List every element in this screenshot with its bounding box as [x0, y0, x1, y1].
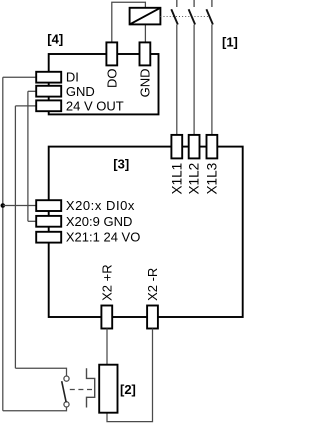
wire: DI terminal to left bus A — [3, 76, 36, 78]
svg-text:X2 -R: X2 -R — [145, 268, 160, 301]
wire: bus B to X20:9 terminal — [28, 220, 36, 222]
terminal GND (box 4 left) — [36, 86, 61, 97]
mains stub L2 — [193, 0, 195, 7]
svg-text:X20:x DI0x: X20:x DI0x — [66, 198, 135, 213]
wire: bus A vertical (DI to thermal contact) — [2, 77, 4, 411]
thermal contact lower terminal circle — [64, 402, 69, 407]
terminal DI (box 4 left) — [36, 72, 61, 83]
wire: bus C vertical (24V to thermal contact) — [14, 106, 16, 368]
box [3] servo drive — [49, 147, 243, 317]
svg-text:DI: DI — [66, 70, 79, 85]
wire: bus B vertical (GND to X20:9) — [27, 91, 29, 221]
terminal X21:1 (box 3 left) — [36, 232, 61, 243]
terminal GND (box 4 top) — [140, 42, 151, 65]
wire: bus C over to thermal contact top — [15, 368, 66, 376]
terminal X1L1 — [171, 135, 182, 159]
thermal contact upper terminal circle — [64, 376, 69, 381]
junction dot (DI bus to X20:x) — [1, 203, 6, 208]
terminal X1L3 — [207, 135, 218, 159]
wire: contact 3 to X1L3 — [211, 25, 213, 135]
svg-text:X1L2: X1L2 — [187, 163, 202, 195]
svg-text:X21:1 24 VO: X21:1 24 VO — [66, 230, 140, 245]
svg-text:24 V OUT: 24 V OUT — [66, 98, 124, 113]
svg-text:DO: DO — [105, 69, 120, 89]
wire: resistor bottom loop to X2-R — [107, 329, 153, 422]
svg-text:[4]: [4] — [47, 32, 63, 47]
wire: bus A bottom over to thermal contact bottom — [3, 407, 67, 411]
svg-text:[3]: [3] — [113, 157, 129, 172]
terminal X20:x (box 3 left) — [36, 200, 61, 211]
svg-text:X20:9 GND: X20:9 GND — [66, 214, 132, 229]
svg-text:[1]: [1] — [222, 35, 238, 50]
svg-text:X2 +R: X2 +R — [100, 264, 115, 301]
svg-text:X1L3: X1L3 — [204, 163, 219, 195]
svg-text:GND: GND — [138, 69, 153, 98]
mains stub L1 — [176, 0, 178, 7]
thermal contact blade — [62, 381, 66, 402]
wire: GND terminal to bus B — [28, 90, 36, 92]
svg-text:[2]: [2] — [120, 382, 136, 397]
contact blade 1 — [171, 9, 178, 24]
mechanical link (dotted) from coil to contacts — [160, 16, 208, 18]
wire: X2+R down to brake resistor — [106, 329, 108, 365]
wire: contact 1 to X1L1 — [176, 25, 178, 135]
terminal 24 V OUT (box 4 left) — [36, 100, 61, 111]
terminal DO (box 4 top) — [106, 42, 117, 65]
svg-text:X1L1: X1L1 — [169, 163, 184, 195]
terminal X1L2 — [189, 135, 200, 159]
contact blade 3 — [206, 9, 213, 24]
thermal link dashes — [70, 389, 95, 391]
contact blade 2 — [189, 9, 196, 24]
brake resistor [2] — [99, 365, 117, 413]
wire: junction to X20:x terminal — [3, 205, 36, 207]
box [4] supply module — [49, 54, 159, 114]
wire: 24V OUT terminal to bus C — [15, 105, 36, 107]
contactor coil K1 — [130, 8, 161, 25]
wire: contact 2 to X1L2 — [193, 25, 195, 135]
terminal X2-R (box 3 bottom) — [147, 306, 158, 329]
thermal sensor bracket on resistor — [87, 368, 95, 407]
terminal X2+R (box 3 bottom) — [101, 306, 112, 329]
wire: DO terminal up and over to contactor coil top — [112, 2, 146, 42]
mains stub L3 — [211, 0, 213, 7]
svg-text:GND: GND — [66, 84, 95, 99]
terminal X20:9 (box 3 left) — [36, 216, 61, 227]
wire: contactor coil bottom to GND terminal — [144, 24, 146, 42]
